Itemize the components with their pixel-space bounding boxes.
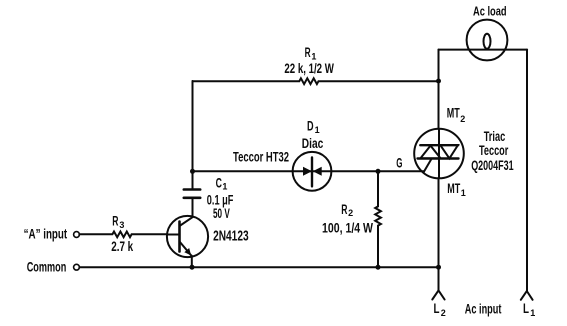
- svg-text:1: 1: [315, 125, 320, 135]
- svg-text:Teccor HT32: Teccor HT32: [233, 150, 289, 165]
- svg-text:MT: MT: [447, 106, 460, 121]
- svg-text:Q2004F31: Q2004F31: [471, 158, 514, 173]
- resistor R2: [375, 171, 381, 267]
- svg-text:2N4123: 2N4123: [213, 228, 249, 244]
- svg-text:R: R: [305, 45, 311, 60]
- wire right vertical L1: [526, 50, 528, 291]
- svg-text:100, 1/4 W: 100, 1/4 W: [322, 221, 373, 236]
- svg-text:D: D: [307, 118, 314, 133]
- wire capacitor to transistor: [192, 198, 194, 217]
- svg-text:R: R: [112, 214, 118, 229]
- wire left vertical: [192, 81, 194, 171]
- svg-text:3: 3: [119, 220, 124, 230]
- wire common line: [79, 266, 438, 268]
- svg-text:50 V: 50 V: [213, 206, 230, 221]
- svg-text:2: 2: [460, 114, 465, 124]
- svg-text:1: 1: [530, 308, 535, 318]
- diac D1: [293, 152, 332, 191]
- svg-text:Teccor: Teccor: [479, 143, 509, 158]
- svg-text:2: 2: [441, 308, 446, 318]
- node common / L2: [436, 265, 441, 270]
- svg-text:Diac: Diac: [302, 136, 324, 151]
- svg-text:L: L: [434, 301, 440, 316]
- terminal L2 chevron: [432, 290, 444, 299]
- svg-text:Triac: Triac: [484, 129, 506, 144]
- svg-text:Ac load: Ac load: [473, 4, 507, 18]
- node R2 top: [376, 169, 381, 174]
- transistor Q1 2N4123: [167, 216, 208, 257]
- svg-text:22 k, 1/2 W: 22 k, 1/2 W: [284, 61, 334, 76]
- wire MT1 down to common: [438, 178, 440, 267]
- svg-text:1: 1: [311, 51, 316, 61]
- capacitor C1: [184, 190, 200, 198]
- svg-text:L: L: [523, 301, 529, 316]
- svg-text:2: 2: [348, 208, 353, 218]
- node left vertical / diac line: [190, 169, 195, 174]
- terminal "A" input: [74, 232, 80, 238]
- node emitter / common: [190, 265, 195, 270]
- wire triac MT2 vertical up to lamp line: [438, 50, 440, 129]
- svg-text:C: C: [216, 176, 222, 191]
- svg-text:MT: MT: [447, 181, 460, 196]
- wire L2 drop: [438, 267, 440, 290]
- svg-text:“A” input: “A” input: [24, 226, 68, 241]
- terminal Common: [74, 264, 80, 270]
- svg-text:G: G: [396, 155, 402, 170]
- wire base input with resistor R3: [79, 232, 167, 238]
- node R1/MT2: [436, 79, 441, 84]
- svg-text:Ac input: Ac input: [465, 302, 502, 317]
- triac Q2004F31: [414, 129, 464, 179]
- svg-text:1: 1: [222, 182, 227, 192]
- svg-text:Common: Common: [27, 260, 67, 275]
- wire diac-gate line: [193, 170, 424, 172]
- svg-text:2.7 k: 2.7 k: [111, 239, 133, 254]
- wire lamp top: [439, 49, 528, 51]
- svg-text:1: 1: [461, 188, 466, 198]
- wire top with resistor R1: [193, 78, 439, 84]
- node R2 bottom: [376, 265, 381, 270]
- lamp AC load: [467, 20, 508, 61]
- svg-text:R: R: [341, 202, 347, 217]
- terminal L1 chevron: [521, 291, 533, 300]
- wire emitter to common: [191, 256, 193, 267]
- wire capacitor column upper: [192, 171, 194, 189]
